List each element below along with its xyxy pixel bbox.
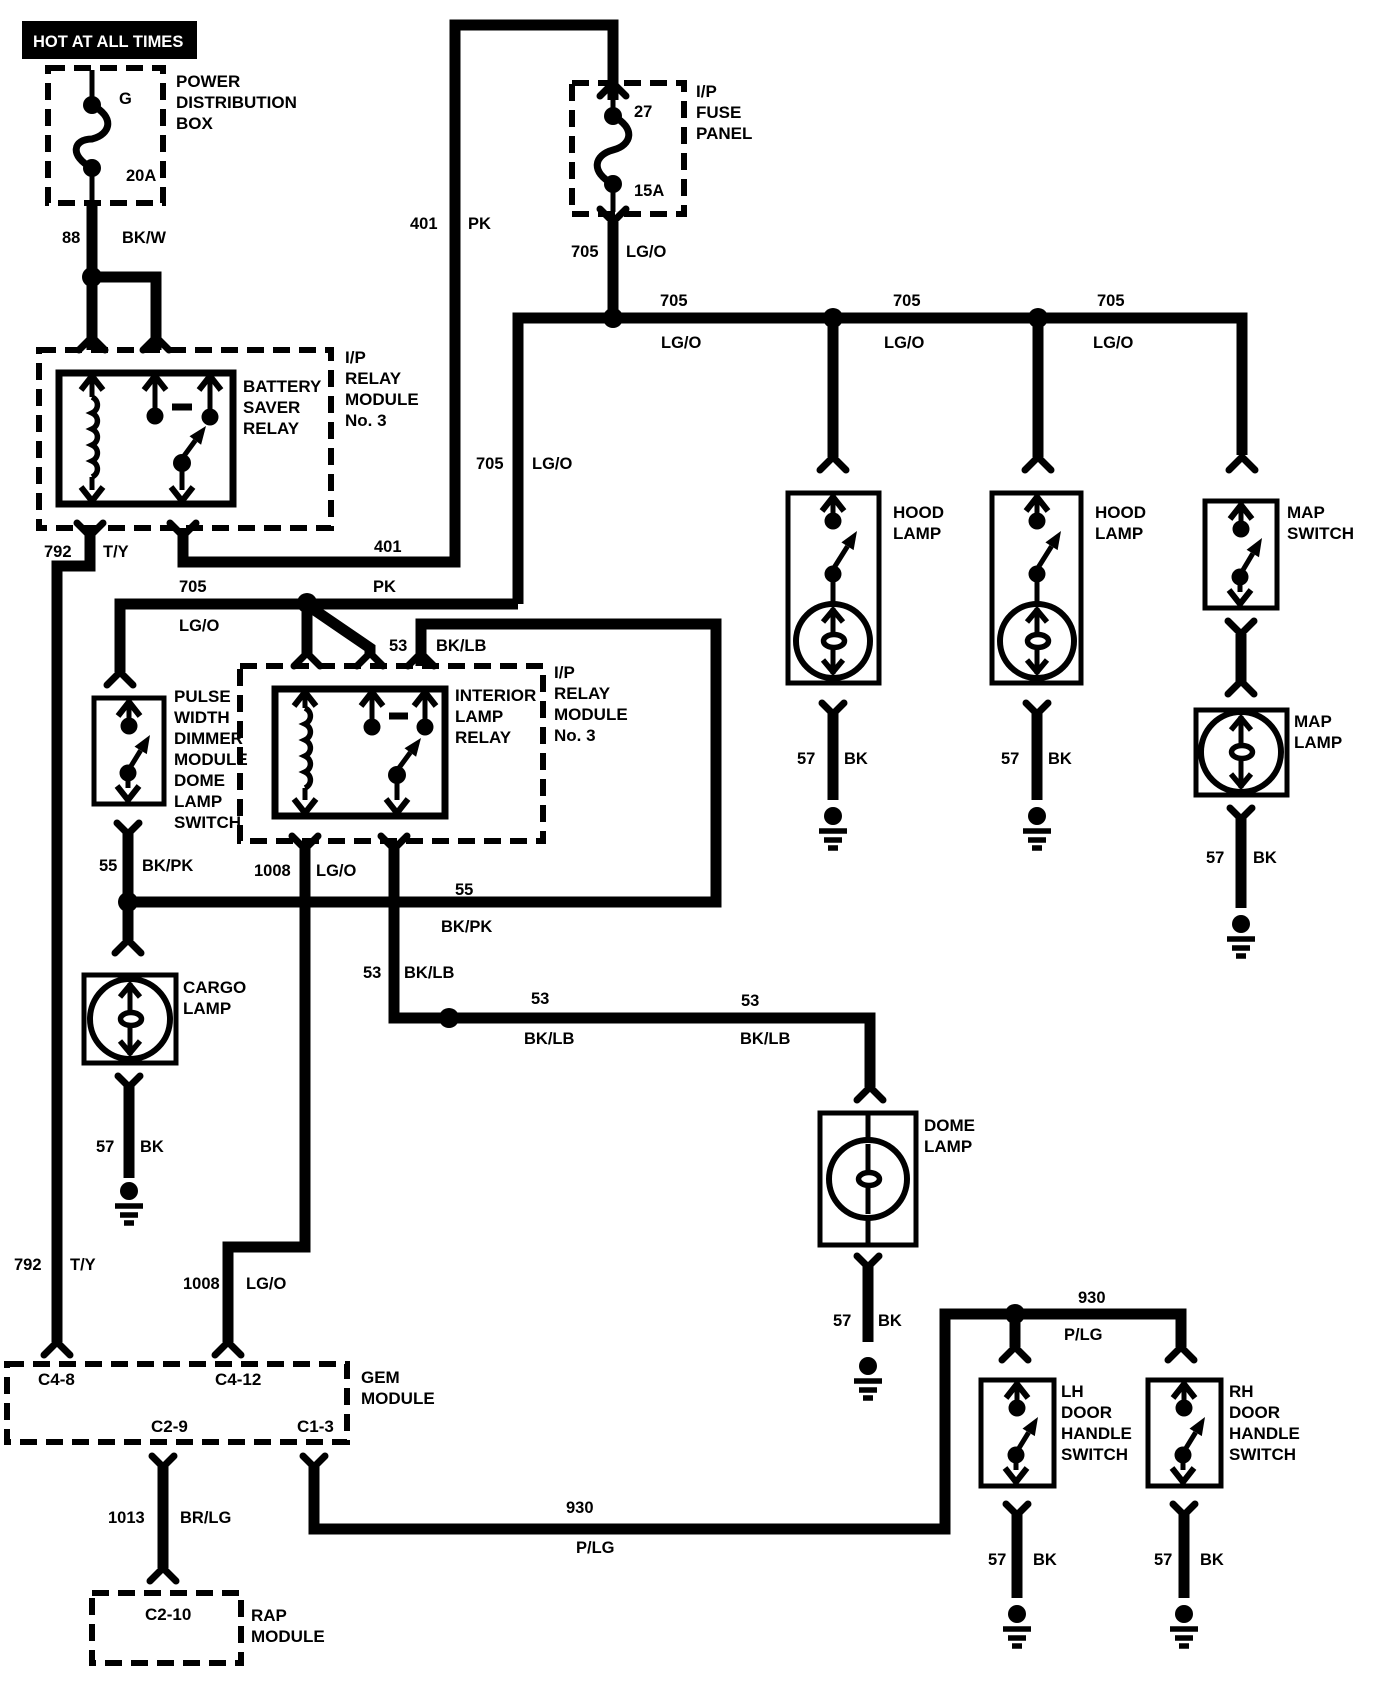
svg-text:LG/O: LG/O <box>246 1275 286 1293</box>
svg-text:57: 57 <box>1154 1551 1172 1569</box>
svg-text:RELAY: RELAY <box>345 369 402 388</box>
svg-text:1008: 1008 <box>183 1275 220 1293</box>
svg-text:930: 930 <box>566 1499 594 1517</box>
svg-text:LG/O: LG/O <box>316 862 356 880</box>
svg-text:PK: PK <box>468 215 491 233</box>
wire 401 PK (relay to I/P fuse panel) <box>170 25 613 596</box>
wire 57 BK map lamp <box>1206 808 1277 908</box>
svg-text:PULSE: PULSE <box>174 687 231 706</box>
svg-text:PANEL: PANEL <box>696 124 752 143</box>
battery saver relay coil <box>81 376 103 501</box>
wire 57 BK hood lamp 1 <box>797 703 868 800</box>
hood lamp 2 <box>992 493 1146 683</box>
svg-text:POWER: POWER <box>176 72 240 91</box>
junction node 930 <box>1005 1304 1025 1324</box>
svg-text:MODULE: MODULE <box>554 705 628 724</box>
cargo lamp <box>84 975 246 1063</box>
svg-text:15A: 15A <box>634 182 664 200</box>
svg-text:LAMP: LAMP <box>1095 524 1143 543</box>
svg-text:P/LG: P/LG <box>1064 1326 1103 1344</box>
svg-text:BK: BK <box>1048 750 1072 768</box>
svg-text:MODULE: MODULE <box>361 1389 435 1408</box>
svg-text:705: 705 <box>660 292 688 310</box>
svg-text:930: 930 <box>1078 1289 1106 1307</box>
I/P relay module No.3 lower (dashed box) <box>240 663 628 841</box>
map lamp <box>1196 710 1342 795</box>
svg-text:HOOD: HOOD <box>893 503 944 522</box>
svg-text:WIDTH: WIDTH <box>174 708 230 727</box>
svg-text:BK: BK <box>1033 1551 1057 1569</box>
svg-text:MODULE: MODULE <box>345 390 419 409</box>
svg-text:BK: BK <box>140 1138 164 1156</box>
svg-text:SWITCH: SWITCH <box>1287 524 1354 543</box>
svg-text:BATTERY: BATTERY <box>243 377 322 396</box>
LH door handle switch <box>981 1380 1132 1486</box>
svg-text:MAP: MAP <box>1294 712 1332 731</box>
svg-text:1008: 1008 <box>254 862 291 880</box>
battery saver relay contact pin (NC) <box>144 376 166 425</box>
svg-text:BK: BK <box>878 1312 902 1330</box>
wire 930 P/LG (GEM C1-3 to door switches) <box>303 1289 1194 1557</box>
RH door handle switch <box>1148 1380 1300 1486</box>
battery saver relay box <box>59 373 322 504</box>
wire 55 BK/PK (dimmer to cargo lamp) <box>99 823 193 953</box>
svg-text:T/Y: T/Y <box>70 1256 96 1274</box>
svg-text:705: 705 <box>571 243 599 261</box>
svg-text:BK: BK <box>1200 1551 1224 1569</box>
svg-text:SWITCH: SWITCH <box>1061 1445 1128 1464</box>
wire 57 BK dome lamp <box>833 1256 902 1342</box>
svg-text:705: 705 <box>476 455 504 473</box>
connector into map switch <box>1229 457 1255 470</box>
svg-text:DISTRIBUTION: DISTRIBUTION <box>176 93 297 112</box>
svg-text:LH: LH <box>1061 1382 1084 1401</box>
svg-text:BK/PK: BK/PK <box>441 918 492 936</box>
wire branch to relay pin 2 <box>92 277 169 350</box>
svg-text:C4-12: C4-12 <box>215 1370 261 1389</box>
interior lamp relay contact pin (NC) <box>361 692 383 736</box>
svg-text:C4-8: C4-8 <box>38 1370 75 1389</box>
svg-text:FUSE: FUSE <box>696 103 741 122</box>
svg-text:I/P: I/P <box>696 82 717 101</box>
junction node 55 <box>118 892 138 912</box>
power distribution box (dashed) <box>48 68 297 203</box>
svg-text:HOOD: HOOD <box>1095 503 1146 522</box>
svg-text:57: 57 <box>833 1312 851 1330</box>
battery saver relay armature <box>171 426 206 501</box>
svg-text:P/LG: P/LG <box>576 1539 615 1557</box>
I/P relay module No.3 (dashed box) <box>39 348 419 528</box>
label HOT AT ALL TIMES <box>22 21 197 59</box>
interior lamp relay coil <box>294 692 316 813</box>
svg-text:53: 53 <box>741 992 759 1010</box>
connector into dimmer <box>107 672 133 685</box>
svg-text:INTERIOR: INTERIOR <box>455 686 536 705</box>
svg-text:C2-9: C2-9 <box>151 1417 188 1436</box>
svg-text:1013: 1013 <box>108 1509 145 1527</box>
svg-text:792: 792 <box>44 543 72 561</box>
svg-text:RELAY: RELAY <box>243 419 300 438</box>
svg-text:DOME: DOME <box>174 771 225 790</box>
fuse G 20A <box>76 70 156 201</box>
svg-text:T/Y: T/Y <box>103 543 129 561</box>
svg-text:LG/O: LG/O <box>626 243 666 261</box>
svg-text:RELAY: RELAY <box>554 684 611 703</box>
junction node 53 <box>439 1008 459 1028</box>
wire 705 LG/O (fuse panel to bus) <box>571 209 666 318</box>
svg-text:LG/O: LG/O <box>1093 334 1133 352</box>
ground LH door switch <box>1003 1605 1031 1646</box>
junction node on wire 88 <box>82 267 102 287</box>
junction node 705 branch <box>297 593 317 613</box>
svg-text:CARGO: CARGO <box>183 978 246 997</box>
svg-text:BR/LG: BR/LG <box>180 1509 231 1527</box>
ground hood lamp 2 <box>1023 807 1051 848</box>
svg-text:LG/O: LG/O <box>661 334 701 352</box>
interior lamp relay box <box>275 686 536 816</box>
dome lamp <box>820 1113 975 1245</box>
map switch <box>1205 501 1354 608</box>
svg-text:LG/O: LG/O <box>884 334 924 352</box>
GEM module (dashed box) <box>7 1364 435 1442</box>
svg-text:705: 705 <box>179 578 207 596</box>
svg-text:HOT AT ALL TIMES: HOT AT ALL TIMES <box>33 33 183 51</box>
interior relay contact gap dash <box>389 713 408 720</box>
svg-text:BK/LB: BK/LB <box>436 637 486 655</box>
svg-text:27: 27 <box>634 103 652 121</box>
svg-text:88: 88 <box>62 229 80 247</box>
svg-text:HANDLE: HANDLE <box>1061 1424 1132 1443</box>
svg-text:RELAY: RELAY <box>455 728 512 747</box>
svg-text:LG/O: LG/O <box>179 617 219 635</box>
ground cargo lamp <box>115 1182 143 1223</box>
svg-text:55: 55 <box>455 881 473 899</box>
svg-text:57: 57 <box>988 1551 1006 1569</box>
wire 57 BK cargo lamp <box>96 1076 164 1178</box>
svg-text:LAMP: LAMP <box>455 707 503 726</box>
junction node bus / hood lamp 1 <box>823 308 843 328</box>
svg-text:BOX: BOX <box>176 114 214 133</box>
junction node bus / hood lamp 2 <box>1028 308 1048 328</box>
interior lamp relay contact pin (NO) <box>414 692 436 736</box>
wire 88 BK/W <box>62 203 166 350</box>
svg-text:DOME: DOME <box>924 1116 975 1135</box>
svg-text:401: 401 <box>374 538 402 556</box>
svg-text:BK/PK: BK/PK <box>142 857 193 875</box>
relay contact gap dash <box>172 404 192 411</box>
svg-text:SWITCH: SWITCH <box>1229 1445 1296 1464</box>
svg-text:DOOR: DOOR <box>1061 1403 1112 1422</box>
hood lamp 1 <box>788 493 944 683</box>
wire 1008 LG/O (relay to GEM C4-12) <box>183 836 356 1355</box>
pulse width dimmer module dome lamp switch <box>94 687 248 832</box>
svg-text:RH: RH <box>1229 1382 1254 1401</box>
RAP module (dashed box) <box>92 1593 325 1663</box>
svg-text:MODULE: MODULE <box>174 750 248 769</box>
svg-text:LAMP: LAMP <box>1294 733 1342 752</box>
svg-text:I/P: I/P <box>345 348 366 367</box>
svg-text:LG/O: LG/O <box>532 455 572 473</box>
svg-text:C2-10: C2-10 <box>145 1605 191 1624</box>
svg-text:SWITCH: SWITCH <box>174 813 241 832</box>
svg-text:BK/LB: BK/LB <box>740 1030 790 1048</box>
svg-text:55: 55 <box>99 857 117 875</box>
svg-text:G: G <box>119 90 132 108</box>
svg-text:RAP: RAP <box>251 1606 287 1625</box>
svg-text:BK/W: BK/W <box>122 229 166 247</box>
ground RH door switch <box>1170 1605 1198 1646</box>
wire 705 LG/O (to dimmer and relay) <box>120 578 518 672</box>
I/P fuse panel (dashed box) <box>572 82 752 214</box>
svg-text:MAP: MAP <box>1287 503 1325 522</box>
svg-text:57: 57 <box>1001 750 1019 768</box>
svg-text:BK: BK <box>1253 849 1277 867</box>
wire 57 BK hood lamp 2 <box>1001 703 1072 800</box>
svg-text:No. 3: No. 3 <box>345 411 387 430</box>
svg-text:792: 792 <box>14 1256 42 1274</box>
wire 57 BK RH door switch <box>1154 1504 1224 1598</box>
svg-text:53: 53 <box>363 964 381 982</box>
svg-text:HANDLE: HANDLE <box>1229 1424 1300 1443</box>
inline connector below map switch <box>1228 621 1254 694</box>
diagonal stub to relay contact <box>310 607 383 666</box>
svg-text:BK/LB: BK/LB <box>524 1030 574 1048</box>
svg-text:PK: PK <box>373 578 396 596</box>
svg-text:I/P: I/P <box>554 663 575 682</box>
wire 705 LG/O bus <box>476 292 1242 604</box>
svg-text:LAMP: LAMP <box>924 1137 972 1156</box>
svg-text:BK: BK <box>844 750 868 768</box>
svg-text:LAMP: LAMP <box>183 999 231 1018</box>
svg-text:57: 57 <box>797 750 815 768</box>
svg-text:SAVER: SAVER <box>243 398 300 417</box>
wire to hood lamp 2 <box>1025 318 1051 470</box>
interior lamp relay armature <box>386 738 421 813</box>
svg-text:LAMP: LAMP <box>893 524 941 543</box>
wire 53 BK/LB (relay to dome lamp) <box>363 836 883 1100</box>
svg-text:BK/LB: BK/LB <box>404 964 454 982</box>
stub to LH door handle switch <box>1002 1314 1028 1360</box>
wire 53 BK/LB (relay pin to node 55) <box>128 624 716 936</box>
svg-text:53: 53 <box>531 990 549 1008</box>
svg-text:MODULE: MODULE <box>251 1627 325 1646</box>
svg-text:57: 57 <box>1206 849 1224 867</box>
svg-text:705: 705 <box>893 292 921 310</box>
wire 1013 BR/LG (GEM C2-9 to RAP) <box>108 1456 231 1581</box>
svg-text:C1-3: C1-3 <box>297 1417 334 1436</box>
ground hood lamp 1 <box>819 807 847 848</box>
wire 792 T/Y (relay to GEM C4-8) <box>14 523 129 1355</box>
svg-text:57: 57 <box>96 1138 114 1156</box>
svg-text:53: 53 <box>389 637 407 655</box>
svg-text:No. 3: No. 3 <box>554 726 596 745</box>
svg-text:LAMP: LAMP <box>174 792 222 811</box>
ground map lamp <box>1227 915 1255 956</box>
ground dome lamp <box>854 1357 882 1398</box>
svg-text:GEM: GEM <box>361 1368 400 1387</box>
svg-text:705: 705 <box>1097 292 1125 310</box>
stub to interior relay coil <box>294 603 320 666</box>
wire 57 BK LH door switch <box>988 1504 1057 1598</box>
fuse 27 15A <box>597 83 664 212</box>
battery saver relay contact pin (NO) <box>199 376 221 426</box>
svg-text:401: 401 <box>410 215 438 233</box>
svg-text:DOOR: DOOR <box>1229 1403 1280 1422</box>
wire to hood lamp 1 <box>820 318 846 470</box>
junction node bus / fuse feed <box>603 308 623 328</box>
svg-text:DIMMER: DIMMER <box>174 729 243 748</box>
svg-text:20A: 20A <box>126 167 156 185</box>
